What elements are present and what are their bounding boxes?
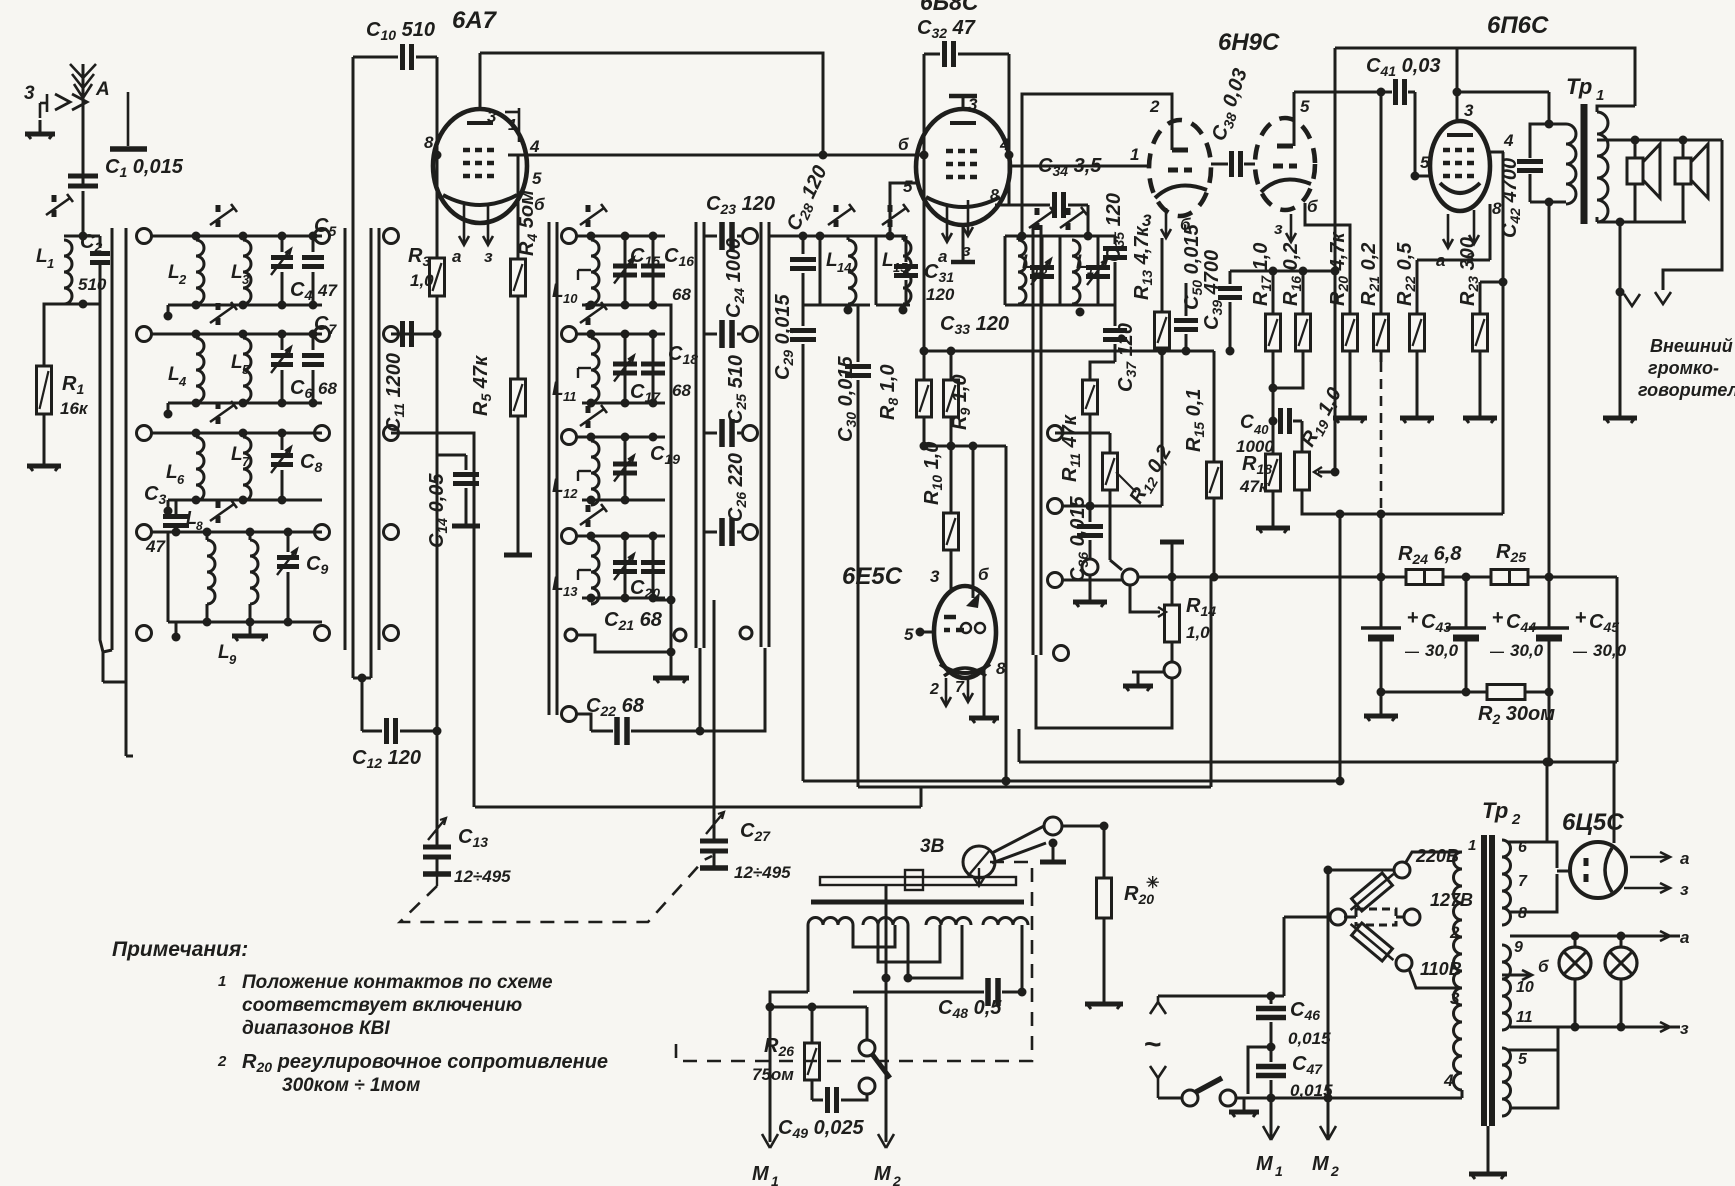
- wire R16 bottom: [1269, 351, 1304, 393]
- svg-text:6Б8С: 6Б8С: [920, 0, 979, 15]
- Tr1 primary coil: [1545, 124, 1577, 207]
- label b arrow: [1502, 957, 1549, 980]
- coil L10: [552, 240, 599, 306]
- wire R19 bottom: [1302, 490, 1503, 519]
- svg-text:L: L: [826, 250, 838, 271]
- capacitor C42 4700: [1499, 124, 1549, 238]
- capacitor C16 68: [641, 236, 665, 305]
- capacitor C44 30.0: [1446, 577, 1544, 660]
- band switch symbol row4: [210, 500, 237, 523]
- svg-text:С49 0,025: С49 0,025: [778, 1117, 865, 1141]
- wire IFT1 row L11 bottom: [582, 399, 665, 408]
- svg-text:8: 8: [196, 519, 203, 533]
- wire mains feed: [1283, 917, 1286, 996]
- potentiometer R19 1.0: [1295, 384, 1348, 490]
- coil L7: [231, 437, 251, 501]
- svg-text:3В: 3В: [920, 836, 945, 857]
- wire R20 gnd: [1349, 351, 1352, 404]
- svg-text:13: 13: [563, 584, 578, 599]
- capacitor C38 0.03: [1208, 66, 1255, 177]
- bus y787: [858, 786, 1211, 789]
- 6E5S cathode arrows: [929, 676, 973, 706]
- label tube 6E5S: [842, 563, 903, 590]
- Tr2 primary winding: [1453, 852, 1462, 1098]
- svg-text:з: з: [1680, 1019, 1689, 1038]
- svg-text:L: L: [231, 262, 243, 283]
- motor wiring 2: [1006, 925, 1022, 992]
- switch rail A: [103, 228, 133, 756]
- resistor R25: [1491, 541, 1528, 585]
- trimmer C4: [271, 236, 312, 305]
- Tr2 winding 6-7-8: [1502, 839, 1528, 925]
- wire IFT2 top: [1018, 232, 1116, 241]
- M1 power arrow: [1256, 1126, 1283, 1179]
- wire IFT1 row L12 top: [577, 433, 665, 442]
- svg-text:30,0: 30,0: [1593, 641, 1627, 660]
- IFT1 row6 contacts: [562, 707, 592, 732]
- rail D contact: [1048, 499, 1063, 514]
- resistor R16 0,2: [1280, 243, 1311, 351]
- switch (motor): [859, 1040, 890, 1100]
- wiper circle: [1063, 560, 1138, 585]
- resistor R13 4.7k: [1131, 226, 1170, 506]
- wire winding6 to rect: [1508, 842, 1557, 868]
- antenna A: [70, 64, 110, 186]
- svg-text:8: 8: [990, 187, 999, 204]
- wire R17 top: [1272, 271, 1275, 314]
- svg-text:1: 1: [771, 1173, 779, 1186]
- svg-text:1: 1: [508, 117, 517, 134]
- coil L12: [552, 441, 599, 505]
- switch (antenna): [46, 194, 73, 217]
- resistor R8 1.0: [877, 347, 932, 421]
- wire R21 top: [1380, 92, 1383, 314]
- svg-text:R8 1,0: R8 1,0: [877, 364, 901, 420]
- svg-text:7: 7: [242, 454, 250, 469]
- trimmer C19: [613, 437, 637, 500]
- rails B/C bottom join: [353, 674, 371, 732]
- svg-text:L: L: [1076, 252, 1088, 273]
- wire IFT1 row L10 top: [577, 232, 665, 241]
- ground (R14): [1123, 672, 1164, 691]
- rail D contact: [1048, 573, 1063, 588]
- label C26 220: [725, 453, 749, 522]
- wire C22 right: [700, 648, 765, 731]
- tube 6E5S: [934, 586, 996, 678]
- capacitor C37 120: [1103, 305, 1139, 392]
- wire IFT1 row L13 top: [577, 532, 665, 541]
- wire to R1: [44, 304, 64, 366]
- wire ext speaker loop: [1663, 140, 1722, 290]
- resistor R22 0,5: [1394, 242, 1425, 351]
- capacitor C34 3.5: [1009, 155, 1102, 236]
- svg-text:1: 1: [1130, 145, 1139, 164]
- motor wiring: [808, 925, 962, 992]
- svg-text:М: М: [1312, 1153, 1330, 1175]
- wire pickup to R20: [1062, 822, 1109, 831]
- M1 arrow: [752, 1134, 779, 1186]
- svg-text:6А7: 6А7: [452, 7, 498, 34]
- switch contact B: [315, 229, 330, 244]
- resistor R12 0.2: [1055, 433, 1178, 560]
- wire R3 bottom: [433, 296, 442, 731]
- capacitor C18 68: [641, 334, 665, 403]
- svg-text:10: 10: [1516, 979, 1534, 996]
- IFT1 contact right C23: [743, 229, 758, 244]
- 6A7 cathode arrows: [452, 205, 493, 266]
- IFT1 inter-row wire: [665, 305, 676, 652]
- svg-text:R2 30ом: R2 30ом: [1478, 703, 1555, 727]
- svg-text:диапазонов КВI: диапазонов КВI: [242, 1018, 390, 1039]
- wire row1 bottom: [164, 301, 323, 321]
- svg-text:3: 3: [24, 83, 35, 104]
- R14 wiper arrow: [1138, 607, 1166, 617]
- svg-text:Тр: Тр: [1482, 798, 1508, 823]
- pilot lamp 1: [1559, 936, 1591, 1027]
- fuse 110: [1345, 918, 1398, 966]
- svg-text:3: 3: [1142, 211, 1152, 230]
- svg-text:б: б: [1180, 215, 1191, 234]
- switch symbol L15: [882, 204, 909, 227]
- ground (R20*): [1085, 990, 1123, 1009]
- wire row4 top: [152, 528, 322, 537]
- coil bank center wire: [0, 0, 1, 1]
- svg-text:С23 120: С23 120: [706, 193, 775, 217]
- svg-text:47: 47: [317, 281, 338, 300]
- wire padder column: [391, 433, 474, 807]
- svg-text:С41 0,03: С41 0,03: [1366, 55, 1441, 79]
- bus y762: [1019, 729, 1617, 767]
- svg-text:Внешний: Внешний: [1650, 336, 1733, 356]
- wire IFT2 bottoms: [1042, 304, 1115, 307]
- svg-text:12: 12: [563, 486, 578, 501]
- bus y699: [0, 0, 1, 1]
- svg-text:С39 4700: С39 4700: [1201, 250, 1225, 330]
- svg-text:4: 4: [999, 135, 1010, 154]
- svg-text:L: L: [231, 352, 243, 373]
- IFT1 switch symbol L11: [580, 302, 607, 325]
- resistor R5 47k: [470, 296, 526, 416]
- wire osc column: [0, 0, 1, 1]
- svg-text:120: 120: [926, 285, 955, 304]
- resistor R10 1.0: [921, 442, 959, 550]
- wire to switch: [770, 1003, 867, 1041]
- svg-text:1: 1: [1468, 837, 1476, 854]
- top bus 48: [1335, 48, 1635, 106]
- coil L6: [166, 437, 204, 501]
- mech link dashed: [400, 856, 712, 922]
- svg-text:510: 510: [78, 275, 107, 294]
- motor winding 3: [926, 918, 971, 925]
- tank L16: [1005, 236, 1048, 305]
- switch rail B: [345, 228, 353, 678]
- wire L13 bottom ext: [653, 599, 671, 602]
- svg-text:R20 4,7к: R20 4,7к: [1327, 232, 1351, 306]
- resistor R1 16k: [37, 366, 89, 418]
- wire heater top: [1546, 762, 1549, 842]
- 6B8S cathode arrows: [938, 200, 973, 266]
- wire lamp row a: [1510, 928, 1689, 947]
- svg-text:з: з: [1466, 247, 1475, 266]
- switch contact A1: [137, 229, 152, 244]
- svg-text:2: 2: [1330, 1163, 1339, 1179]
- resistor R11 47k: [1059, 362, 1115, 511]
- svg-text:~: ~: [1144, 1028, 1162, 1061]
- svg-text:3: 3: [1450, 989, 1460, 1008]
- mains switch: [1158, 1078, 1236, 1106]
- wire speaker top: [1600, 136, 1722, 145]
- svg-text:L: L: [231, 444, 243, 465]
- svg-text:а: а: [1436, 251, 1445, 270]
- M2 arrow: [874, 1134, 901, 1186]
- svg-text:127В: 127В: [1430, 890, 1473, 910]
- svg-text:8: 8: [424, 133, 434, 152]
- svg-text:10: 10: [563, 291, 578, 306]
- label tube 6P6S: [1487, 12, 1549, 39]
- wire cathode bus: [924, 350, 1037, 353]
- coil L9: [218, 532, 258, 667]
- svg-text:С33 120: С33 120: [940, 313, 1009, 337]
- record player dashed box: [676, 862, 1032, 1061]
- svg-text:✳: ✳: [1146, 875, 1159, 892]
- wire M1 line: [769, 1007, 772, 1142]
- jack arrows: [40, 94, 87, 118]
- svg-text:5: 5: [1300, 97, 1310, 116]
- ground (coil bank): [232, 622, 268, 641]
- wire antenna to tank: [79, 191, 88, 241]
- resistor R23 300: [1457, 237, 1488, 351]
- label transformer Tr1: [1566, 74, 1604, 104]
- svg-text:з: з: [1680, 880, 1689, 899]
- IFT1 contact right C24: [743, 327, 758, 342]
- svg-text:1: 1: [218, 973, 226, 990]
- pickup jack ground: [1040, 839, 1066, 863]
- svg-text:4: 4: [529, 137, 540, 156]
- svg-text:А: А: [95, 79, 110, 100]
- wire speaker return: [1619, 222, 1622, 404]
- capacitor C31 120: [894, 236, 955, 305]
- capacitor C50 0.015: [1174, 223, 1205, 351]
- trimmer C8: [271, 433, 322, 500]
- IFT1 contact right C25: [743, 426, 758, 441]
- capacitor C30 0.015: [835, 305, 871, 787]
- resistor R24 6.8: [1138, 543, 1462, 585]
- svg-text:+: +: [1492, 607, 1504, 629]
- svg-text:Тр: Тр: [1566, 74, 1592, 99]
- ground (R1): [27, 452, 61, 471]
- capacitor C43 30.0: [1361, 607, 1459, 660]
- svg-text:5: 5: [242, 362, 250, 377]
- label C18 68: [668, 343, 698, 400]
- ground (mains): [1229, 1098, 1259, 1117]
- wire L14 to L15: [803, 304, 870, 307]
- ground (C36): [1073, 588, 1107, 607]
- label tube 6A7: [452, 7, 498, 34]
- svg-text:R11 47к: R11 47к: [1059, 414, 1083, 482]
- wire L15 bottom: [903, 304, 910, 307]
- wire 220V tap: [1324, 866, 1395, 875]
- wire rect top: [1613, 762, 1616, 843]
- ext speaker plug right: [1655, 292, 1671, 304]
- 6P6S pin4 wire: [1490, 131, 1514, 152]
- note 2: [217, 1051, 608, 1096]
- svg-text:14: 14: [837, 260, 852, 275]
- capacitor C5 47: [302, 215, 338, 305]
- band switch symbol row1: [210, 204, 237, 227]
- resistor R2 30om: [1478, 685, 1555, 728]
- IFT1 switch symbol L13: [580, 504, 607, 527]
- wire C32 right column: [1005, 54, 1014, 205]
- resistor R17 1,0: [1250, 243, 1281, 351]
- capacitor C36 0.015: [1067, 495, 1103, 582]
- capacitor C40 1000: [1236, 408, 1302, 456]
- svg-text:5: 5: [1518, 1051, 1528, 1068]
- 6B8S cathode bar: [951, 225, 975, 262]
- svg-text:110В: 110В: [1420, 959, 1462, 979]
- coil L1: [36, 240, 72, 304]
- svg-text:М: М: [752, 1163, 770, 1185]
- wire C43 column: [1377, 514, 1386, 612]
- label C21 68: [604, 609, 663, 633]
- speaker external: [1675, 140, 1708, 222]
- wire R5 bottom: [504, 416, 532, 555]
- svg-text:30,0: 30,0: [1425, 641, 1459, 660]
- wire R23 gnd: [1479, 351, 1482, 404]
- 6A7 pin5 label: [532, 169, 542, 188]
- svg-text:С22 68: С22 68: [586, 695, 645, 719]
- svg-text:16к: 16к: [60, 399, 89, 418]
- switch contact C: [384, 229, 399, 244]
- wire R16 top: [1302, 271, 1305, 314]
- 6N9S t1 plate wire: [1022, 94, 1172, 236]
- Tr2 core: [1484, 835, 1492, 1126]
- wire C28 top: [769, 232, 876, 241]
- tube 6N9S triode1: [1149, 120, 1211, 216]
- svg-text:11: 11: [1516, 1009, 1533, 1026]
- wire R10 bottom: [950, 550, 953, 592]
- svg-text:L: L: [166, 462, 178, 483]
- wire IFT1 row L12 bottom: [582, 496, 665, 505]
- svg-text:R10 1,0: R10 1,0: [921, 442, 945, 505]
- resistor R20* volume: [1097, 826, 1160, 990]
- ground (R20res): [1333, 404, 1367, 423]
- ground (speaker): [1603, 404, 1637, 423]
- svg-text:2: 2: [178, 272, 187, 287]
- wire cathode bus 2: [1037, 347, 1214, 356]
- IFT1 switch symbol L10: [580, 204, 607, 227]
- wire R25 right: [1528, 573, 1617, 582]
- wire R17 bottom: [1269, 351, 1278, 426]
- wire motor left: [766, 992, 809, 1012]
- wire IFT1 row L13 bottom: [582, 594, 665, 603]
- capacitor C10 510: [353, 19, 437, 70]
- svg-text:3: 3: [487, 107, 497, 126]
- capacitor C41 0.03: [1294, 55, 1441, 105]
- trimmer C33: [1030, 236, 1054, 305]
- wire C10 left to rail B: [352, 57, 355, 228]
- 6A7 pin6 label: [534, 195, 545, 214]
- resistor R14 1.0: [1160, 542, 1216, 662]
- svg-text:2: 2: [892, 1173, 901, 1186]
- svg-text:12÷495: 12÷495: [454, 867, 511, 886]
- switch contact A5: [137, 626, 152, 641]
- switch rail D: [1033, 225, 1041, 655]
- svg-text:С12 120: С12 120: [352, 747, 421, 771]
- wire y446: [924, 442, 1011, 786]
- svg-text:М: М: [1256, 1153, 1274, 1175]
- wire C36 ground: [1089, 575, 1092, 588]
- svg-text:0,015: 0,015: [1288, 1029, 1331, 1048]
- svg-text:1: 1: [47, 256, 54, 271]
- IFT1 right rail a: [696, 222, 704, 648]
- svg-text:L: L: [552, 476, 564, 497]
- wire row4 bottom: [168, 532, 322, 642]
- svg-text:С32 47: С32 47: [917, 17, 976, 41]
- svg-text:1: 1: [1275, 1163, 1283, 1179]
- 6N9S t2 cathode: [1274, 197, 1318, 242]
- coil L3: [231, 240, 251, 304]
- 6N9S t1 grid wire: [1010, 145, 1150, 166]
- resistor R18 47k: [1239, 421, 1281, 496]
- svg-text:С14 0,05: С14 0,05: [426, 473, 450, 548]
- 6E5S ground: [969, 668, 999, 723]
- resistor R9 1.0: [944, 347, 974, 431]
- earth jack label 3: [24, 83, 35, 104]
- capacitor C45 30.0: [1529, 577, 1627, 660]
- resistor R26 75om: [752, 1007, 820, 1100]
- bottom circle R14: [1164, 662, 1180, 678]
- capacitor C12 120: [352, 718, 442, 771]
- 6E5S labels: [904, 565, 1006, 678]
- label transformer Tr2: [1482, 798, 1521, 828]
- trimmer C15: [613, 236, 637, 305]
- motor winding 2: [863, 918, 908, 925]
- svg-text:С24 1000: С24 1000: [723, 238, 747, 318]
- svg-text:3: 3: [930, 567, 940, 586]
- fuse common node: [1284, 909, 1346, 925]
- tube 6A7: [433, 109, 527, 223]
- svg-text:L: L: [218, 642, 230, 663]
- coil L4: [168, 338, 204, 402]
- label tube 6Ts5S: [1562, 809, 1624, 836]
- IFT1 contact L12 left: [562, 430, 577, 445]
- coil L5: [231, 338, 251, 402]
- switch contact C: [384, 327, 399, 342]
- wire B+ feed 1340: [1339, 514, 1342, 781]
- capacitor C1 0.015: [68, 156, 184, 186]
- svg-text:2: 2: [929, 681, 939, 698]
- wire row2 top: [152, 330, 322, 339]
- ground (filter): [1364, 692, 1398, 721]
- turntable bar: [820, 870, 1016, 890]
- svg-text:а: а: [452, 247, 461, 266]
- pickup wires: [992, 826, 1046, 863]
- note 1: [218, 972, 553, 1039]
- M2 power arrow: [1312, 1126, 1339, 1179]
- wire R1 to ground: [43, 414, 46, 452]
- svg-text:L: L: [552, 574, 564, 595]
- pickup head 3V: [920, 836, 995, 886]
- coil L2: [168, 240, 204, 304]
- notes heading: [112, 938, 248, 961]
- 6B8S pin4: [999, 135, 1010, 155]
- svg-text:68: 68: [672, 285, 691, 304]
- IFT1 contact L13 left: [562, 529, 577, 544]
- motor stator bar: [811, 900, 1024, 905]
- label C16 68: [664, 245, 694, 304]
- wire rail to C22: [699, 648, 702, 731]
- trimmer C9: [277, 532, 328, 622]
